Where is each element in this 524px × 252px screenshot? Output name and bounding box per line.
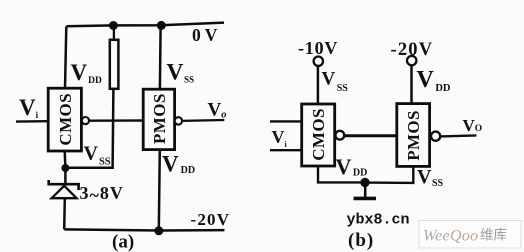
wire: Vo output (182, 119, 224, 122)
svg-text:-10V: -10V (298, 38, 338, 58)
svg-text:(b): (b) (348, 230, 374, 251)
wire: Vi input stub lower (b) (270, 149, 302, 151)
wire: CMOS VDD lead from rail (65, 27, 66, 89)
svg-text:VSS: VSS (417, 166, 444, 189)
wire: Vo output (b) (440, 135, 476, 136)
node: junction dot -20V / PMOS VDD lead (154, 226, 163, 235)
svg-text:Vo: Vo (208, 100, 227, 121)
gate U2 PMOS box (143, 89, 174, 149)
wire: top 0V rail (66, 23, 224, 27)
wire: CMOS output to PMOS input (89, 119, 143, 122)
node: CMOS output bubble (82, 117, 89, 124)
gate U3 CMOS box (302, 104, 335, 166)
gate U4 PMOS box (397, 104, 430, 167)
ground symbol (354, 187, 377, 199)
svg-text:WeeQoo: WeeQoo (423, 228, 478, 245)
svg-text:PMOS: PMOS (150, 93, 169, 144)
wire: CMOS to PMOS (thick) (b) (344, 134, 397, 137)
wire: -20V to PMOS VDD pin (410, 65, 413, 103)
node: PMOS output bubble (175, 117, 182, 124)
svg-text:VSS: VSS (84, 143, 111, 168)
node: PMOS output bubble (b) (431, 132, 440, 141)
svg-text:CMOS: CMOS (56, 93, 75, 146)
wire: zener anode to -20V rail (63, 198, 66, 229)
wire: CMOS VDD lead to ground node (b) (318, 166, 365, 182)
svg-text:PMOS: PMOS (404, 110, 423, 161)
wire: zener cathode lead (64, 168, 67, 185)
svg-text:(a): (a) (112, 232, 134, 252)
svg-text:VDD: VDD (417, 67, 451, 94)
gate U1 CMOS box (48, 88, 81, 151)
node: CMOS output bubble (b) (335, 131, 344, 140)
node: ground junction dot (b) (360, 178, 369, 187)
svg-text:ybx8.cn: ybx8.cn (347, 212, 410, 229)
watermark WeeQoo box (419, 221, 521, 249)
svg-text:VDD: VDD (71, 60, 102, 86)
wire: PMOS VSS lead from rail (159, 26, 162, 89)
node: junction dot at resistor top (109, 21, 118, 30)
wire: PMOS VDD lead to rail (159, 150, 160, 230)
node: junction dot CMOS VSS / zener (61, 164, 69, 172)
wire: resistor bottom down to CMOS VSS node (66, 89, 113, 168)
wire: CMOS VSS lead down (63, 151, 66, 168)
svg-text:Vi: Vi (19, 95, 39, 120)
wire: Vi input stub upper (b) (270, 120, 302, 122)
svg-text:VSS: VSS (322, 69, 349, 95)
wire: bottom -20V rail (64, 229, 224, 230)
wire: Vi input (16, 120, 48, 123)
svg-text:维库: 维库 (480, 228, 507, 243)
svg-text:VO: VO (463, 116, 483, 135)
svg-text:VSS: VSS (167, 60, 195, 86)
svg-text:VDD: VDD (336, 154, 368, 179)
terminal -10V (314, 57, 323, 66)
svg-text:3~8V: 3~8V (80, 183, 124, 205)
terminal -20V (407, 56, 416, 65)
resistor R1 (110, 27, 119, 89)
svg-text:VDD: VDD (162, 152, 195, 177)
svg-text:0V: 0V (192, 25, 221, 45)
svg-text:-20V: -20V (191, 210, 231, 229)
node: junction dot at PMOS VSS lead (157, 21, 166, 30)
wire: -10V to CMOS VSS pin (317, 66, 320, 104)
wire: ground node to PMOS VSS lead (b) (365, 167, 413, 183)
svg-text:Vi: Vi (272, 127, 288, 149)
diode zener D1 (49, 180, 79, 198)
svg-text:CMOS: CMOS (309, 108, 328, 161)
